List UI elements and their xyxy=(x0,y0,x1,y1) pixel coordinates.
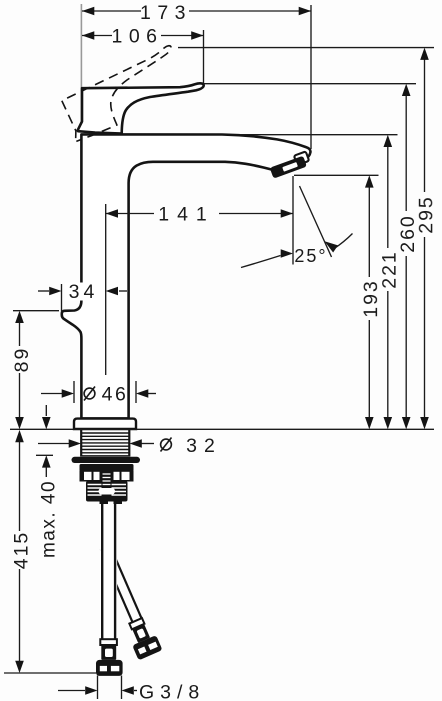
dimension 34 left arrow xyxy=(49,287,61,296)
extension line spout nose x=311 xyxy=(310,5,312,149)
angled hose ring xyxy=(129,618,144,629)
svg-text:46: 46 xyxy=(102,384,129,406)
water stream 25deg line xyxy=(300,186,332,257)
dimension 295 bottom arrow xyxy=(420,417,429,429)
dimension 193 vertical line xyxy=(368,186,370,277)
dimension max40 upper arrow + tail xyxy=(45,405,47,416)
dimension 173 left arrow xyxy=(82,7,94,16)
angled hose tube xyxy=(101,549,133,622)
leader 193 y=175.3 xyxy=(294,174,379,176)
svg-text:415: 415 xyxy=(11,531,33,570)
dimension 141 right arrow xyxy=(281,209,293,218)
dimension 141 left arrow xyxy=(106,209,118,218)
spout nose cap xyxy=(294,151,309,165)
dimension max40 up arrow xyxy=(42,455,51,467)
svg-text:141: 141 xyxy=(158,204,215,226)
25deg right-pointing arrow xyxy=(281,249,293,258)
mounting nut castellated ring xyxy=(80,471,134,482)
straight hose crimp sleeve xyxy=(101,645,116,660)
dimension dia46 left arrow xyxy=(62,389,74,398)
dimension 295 vertical line xyxy=(424,59,426,192)
label 34 xyxy=(65,283,98,301)
leader 295 y=47.6 xyxy=(178,47,434,49)
mounting surface line xyxy=(10,428,434,430)
handle raised position (dashed) xyxy=(56,45,192,144)
threaded shank below surface xyxy=(81,430,129,457)
dimension 193 bottom arrow xyxy=(365,417,374,429)
dimension dia46 right arrow xyxy=(136,389,148,398)
svg-text:25°: 25° xyxy=(294,246,327,266)
escutcheon flange xyxy=(74,419,136,429)
dimension 221 bottom arrow xyxy=(384,417,393,429)
washer under counter xyxy=(72,457,141,463)
dimension max40 down arrow xyxy=(42,417,51,429)
dimension 89 top arrow xyxy=(15,311,24,323)
svg-text:G3/8: G3/8 xyxy=(139,682,205,701)
label diameter symbol 46 xyxy=(84,387,95,401)
25deg arrow at stream line xyxy=(335,234,353,249)
leader 221 y=134.7 xyxy=(240,134,398,136)
straight hose ring xyxy=(100,639,117,645)
extension line step top y=310.7 xyxy=(13,310,59,312)
dimension G3/8 right arrow xyxy=(122,686,134,695)
dimension 415 top arrow xyxy=(15,430,24,442)
aerator outlet xyxy=(270,156,307,179)
reference line hose end y=673 xyxy=(4,672,96,674)
svg-text:106: 106 xyxy=(111,26,163,48)
angled hose crimp sleeve xyxy=(132,624,150,643)
dimension dia46 lines xyxy=(41,393,62,395)
dimension 141 line xyxy=(106,213,154,215)
dimension max40 lower tail xyxy=(45,468,47,478)
handle lever outline xyxy=(78,83,204,133)
slot in nut xyxy=(99,488,116,495)
extension line column axis x=105.7 xyxy=(105,204,107,375)
25deg arrow at vertical xyxy=(241,256,281,268)
dimension dia32 left arrow xyxy=(69,439,81,448)
faucet body and spout outline xyxy=(62,134,311,418)
label diameter symbol 32 xyxy=(161,438,172,452)
dimension 173 right arrow xyxy=(299,7,311,16)
tick G3/8 right xyxy=(121,676,123,700)
extension line outlet axis x=293 xyxy=(292,176,294,265)
dimension 260 top arrow xyxy=(402,84,411,96)
dimension dia32 lines xyxy=(38,443,69,445)
straight supply hose white mask xyxy=(100,502,117,639)
dimension 34 lines xyxy=(38,290,49,292)
extension line handle lip x=203.5 xyxy=(203,30,205,83)
angled supply hose group xyxy=(92,543,162,661)
svg-text:173: 173 xyxy=(140,2,192,24)
dimension 106 right arrow xyxy=(191,31,203,40)
tick max40 bottom y=455.3 xyxy=(36,454,53,456)
svg-text:max. 40: max. 40 xyxy=(39,480,60,558)
dimension 415 bottom arrow xyxy=(15,661,24,673)
mounting nut lower block with threads xyxy=(86,481,128,502)
dimension G3/8 lines xyxy=(58,690,85,692)
dimension 89 bottom arrow xyxy=(15,417,24,429)
extension line front edge (gray) xyxy=(80,4,82,130)
25deg up-left arrow xyxy=(325,241,339,252)
dimension 260 vertical line xyxy=(405,95,407,211)
dimension 260 bottom arrow xyxy=(402,417,411,429)
tick flange left xyxy=(73,381,75,403)
svg-text:32: 32 xyxy=(186,435,222,457)
svg-text:34: 34 xyxy=(69,281,99,303)
dimension 106 line xyxy=(82,35,112,37)
straight hose tube xyxy=(101,502,103,639)
dimension 89 line xyxy=(19,323,21,346)
dimension 295 top arrow xyxy=(420,48,429,60)
dimension 415 line xyxy=(19,441,21,531)
dimension 34 right arrow xyxy=(106,287,118,296)
dimension 173 line xyxy=(82,10,141,12)
straight hose G3/8 nut xyxy=(96,660,123,676)
dimension dia32 right arrow xyxy=(130,439,142,448)
angled hose G3/8 nut xyxy=(132,635,162,660)
svg-text:221: 221 xyxy=(379,250,401,289)
dimension G3/8 left arrow xyxy=(85,686,97,695)
svg-text:89: 89 xyxy=(11,347,33,373)
leader 260 y=83.7 xyxy=(204,83,417,85)
dimension 106 left arrow xyxy=(82,31,94,40)
extension line 34-left x=61.5 xyxy=(61,284,63,312)
dimension 193 top arrow xyxy=(365,175,374,187)
dimension 221 vertical line xyxy=(387,146,389,248)
hose connector stubs xyxy=(100,497,109,504)
threaded stud center xyxy=(102,471,112,498)
tick flange right xyxy=(135,381,137,403)
svg-text:295: 295 xyxy=(415,195,437,234)
dimension 221 top arrow xyxy=(384,135,393,147)
mounting nut top band xyxy=(80,464,134,471)
tick G3/8 left xyxy=(97,676,99,700)
